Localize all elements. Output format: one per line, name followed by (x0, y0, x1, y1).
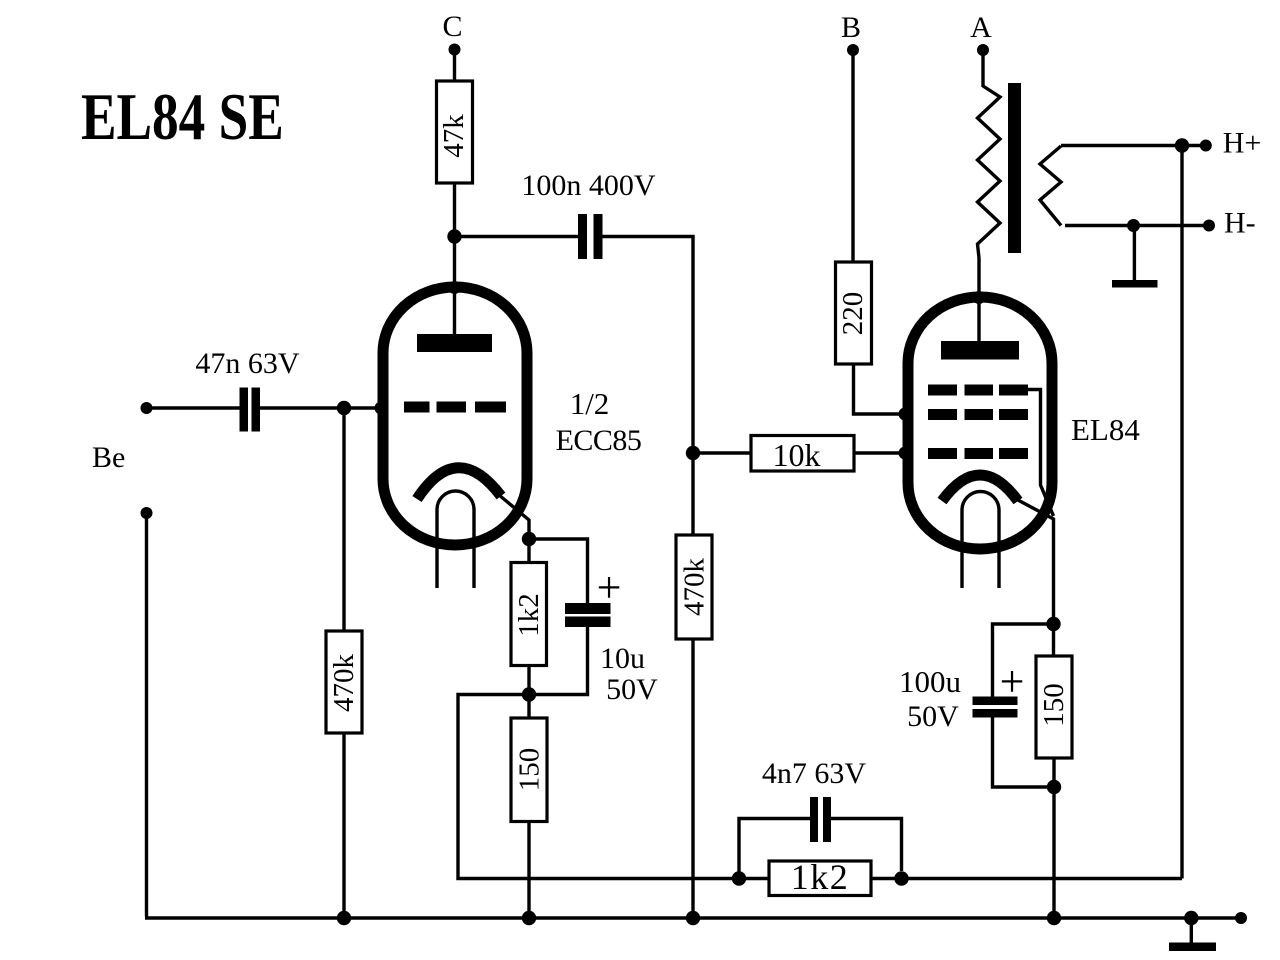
svg-text:1/2: 1/2 (570, 386, 610, 421)
tube V1 cathode lead (499, 495, 529, 563)
tube V1 grid dash 1 (404, 402, 430, 413)
capacitor 4n7 plate right (823, 797, 831, 842)
junction V1 cathode node (522, 532, 536, 546)
svg-text:100u: 100u (899, 664, 961, 699)
svg-text:C: C (442, 10, 462, 43)
svg-text:50V: 50V (606, 673, 658, 706)
junction anode node (447, 229, 461, 243)
svg-text:+: + (1000, 657, 1025, 706)
tube V2 grid2 dash 2 (965, 409, 994, 420)
junction 470k rail (686, 911, 700, 925)
resistor 47k (437, 81, 473, 183)
transformer primary winding (978, 86, 1001, 258)
tube V2 heater (962, 492, 999, 589)
ground symbol secondary (1112, 280, 1158, 288)
capacitor 100n plate left (578, 214, 587, 259)
junction screen entry on V2 envelope (899, 408, 912, 421)
wire 150 to rail (1052, 758, 1055, 918)
junction feedback right node (894, 871, 908, 885)
junction grid node (337, 401, 351, 415)
wire input to 47n (147, 406, 240, 409)
tube V2 EL84 envelope (908, 297, 1052, 549)
junction 470k coupling node (686, 446, 700, 460)
svg-text:B: B (841, 11, 861, 44)
tube V2 cathode arc (942, 475, 1018, 501)
ground symbol rail (1169, 943, 1216, 952)
wire C to 47k (453, 50, 456, 82)
wire A to primary (981, 50, 984, 87)
junction grid entry on envelope (375, 402, 388, 415)
tube V1 heater (437, 491, 474, 588)
tube V2 grid3 to cathode link (1028, 390, 1054, 517)
resistor 10k grid stopper (751, 436, 854, 472)
tube V2 grid3 dash 1 (928, 385, 957, 396)
junction 100u bottom node (1047, 780, 1061, 794)
wire feedback through 1k2 (739, 877, 1182, 880)
svg-text:10k: 10k (773, 437, 821, 473)
tube V2 grid1 dash 1 (928, 448, 957, 459)
svg-text:100n 400V: 100n 400V (521, 169, 656, 202)
junction feedback tap (1175, 138, 1189, 152)
capacitor 47n plate left (240, 388, 249, 432)
svg-text:EL84: EL84 (1071, 412, 1140, 447)
capacitor 4n7 plate left (810, 797, 818, 842)
junction ground rail node (1184, 911, 1198, 925)
wire 4n7 left branch (739, 819, 810, 879)
wire divider node to feedback (458, 695, 739, 879)
wire 470k to ground rail (342, 733, 345, 918)
wire grid node down to 470k (342, 408, 345, 631)
terminal H+ (1200, 140, 1212, 152)
wire 47n to grid node (260, 406, 344, 409)
terminal H- (1203, 220, 1215, 232)
svg-text:EL84 SE: EL84 SE (81, 80, 284, 154)
tube V2 grid1 dash 2 (965, 448, 994, 459)
tube V1 ECC85 envelope (383, 287, 527, 545)
wire feedback vertical (1180, 146, 1183, 879)
wire node to 10k (693, 451, 751, 454)
junction grid entry on V2 envelope (899, 447, 912, 460)
svg-text:10u: 10u (600, 642, 645, 675)
wire cathode node to 100u (993, 624, 1054, 697)
junction V2 cathode node (1046, 617, 1060, 631)
svg-text:4n7 63V: 4n7 63V (762, 757, 867, 790)
node C terminal (449, 44, 461, 56)
node B terminal (847, 44, 859, 56)
wire anode node to 100n (455, 235, 579, 238)
resistor 470k coupling (676, 535, 712, 639)
svg-text:+: + (597, 563, 622, 612)
svg-text:150: 150 (514, 748, 546, 792)
tube V2 anode plate (941, 341, 1019, 360)
capacitor 10u plate top (565, 603, 611, 614)
svg-text:A: A (970, 11, 992, 44)
wire secondary to H+ (1061, 144, 1206, 147)
wire cathode to 10u top (529, 539, 588, 603)
svg-text:H+: H+ (1223, 127, 1262, 160)
svg-text:ECC85: ECC85 (556, 424, 642, 457)
resistor 220 screen (836, 262, 872, 364)
junction plate lead on envelope (448, 281, 461, 294)
terminal rail end (1235, 912, 1247, 924)
capacitor 47n plate right (252, 388, 261, 432)
wire 100n to 470k column (603, 237, 694, 454)
svg-text:470k: 470k (328, 654, 360, 713)
junction H- ground node (1127, 219, 1140, 232)
junction 150 rail (522, 911, 536, 925)
wire anode node to tube plate (453, 237, 456, 335)
wire 150 to rail (527, 822, 530, 919)
wire 220 to tube V2 screen (854, 364, 909, 414)
wire node to 470k (691, 453, 694, 535)
wire Be ground down (145, 513, 148, 917)
capacitor 10u plate bottom (565, 617, 611, 628)
tube V1 cathode arc (417, 468, 501, 499)
resistor 150 cathode V2 (1036, 656, 1072, 758)
junction 150 rail (1047, 911, 1061, 925)
input terminal Be (141, 402, 153, 414)
wire primary to V2 plate (977, 258, 980, 341)
svg-text:H-: H- (1224, 207, 1256, 240)
svg-text:1k2: 1k2 (791, 857, 850, 897)
capacitor 100u plate top (973, 697, 1018, 706)
tube V2 grid3 dash 2 (965, 385, 994, 396)
svg-text:150: 150 (1038, 683, 1070, 727)
svg-text:50V: 50V (907, 700, 959, 733)
wire 470k to rail (691, 639, 694, 918)
transformer secondary winding (1040, 146, 1061, 226)
tube V2 grid1 dash 3 (999, 448, 1028, 459)
svg-text:1k2: 1k2 (513, 593, 545, 637)
wire 47k to node (453, 183, 456, 237)
wire H- to ground (1133, 226, 1136, 281)
tube V1 grid dash 3 (475, 402, 506, 413)
wire 4n7 right branch (831, 819, 902, 872)
capacitor 100n plate right (594, 214, 603, 259)
ground rail (145, 916, 1241, 919)
wire secondary to H- (1065, 224, 1209, 227)
junction plate lead on V2 envelope (973, 291, 986, 304)
transformer core (1008, 83, 1021, 253)
svg-text:220: 220 (837, 292, 869, 336)
wire grid node to tube V1 grid (344, 406, 385, 409)
svg-text:470k: 470k (679, 558, 711, 617)
junction 470k rail (337, 911, 351, 925)
tube V2 cathode lead (1016, 499, 1054, 624)
wire B to 220 (851, 50, 854, 262)
tube V2 grid2 dash 3 (999, 409, 1028, 420)
wire ground stub (1190, 918, 1193, 943)
junction feedback left node (732, 871, 746, 885)
wire 100u bottom (993, 718, 1055, 788)
resistor 1k2 cathode (511, 563, 547, 666)
resistor 1k2 feedback (769, 861, 871, 896)
capacitor 100u plate bottom (973, 709, 1018, 718)
wire 10u bottom to divider node (529, 626, 588, 695)
tube V1 grid dash 2 (437, 402, 467, 413)
resistor 470k grid leak (326, 631, 362, 733)
wire 1k2 to 150 (527, 666, 530, 719)
svg-text:47k: 47k (438, 114, 470, 158)
resistor 150 cathode (511, 718, 547, 822)
svg-text:47n 63V: 47n 63V (195, 347, 300, 380)
tube V1 anode plate (417, 334, 492, 352)
wire cathode node to 150 (1052, 624, 1055, 656)
junction divider node (522, 687, 536, 701)
node A terminal (977, 44, 989, 56)
tube V2 grid2 dash 1 (928, 409, 957, 420)
svg-text:Be: Be (92, 441, 125, 474)
terminal Be ground (141, 507, 153, 519)
wire 10k to tube V2 grid (854, 451, 908, 454)
tube V2 grid3 dash 3 (999, 385, 1028, 396)
